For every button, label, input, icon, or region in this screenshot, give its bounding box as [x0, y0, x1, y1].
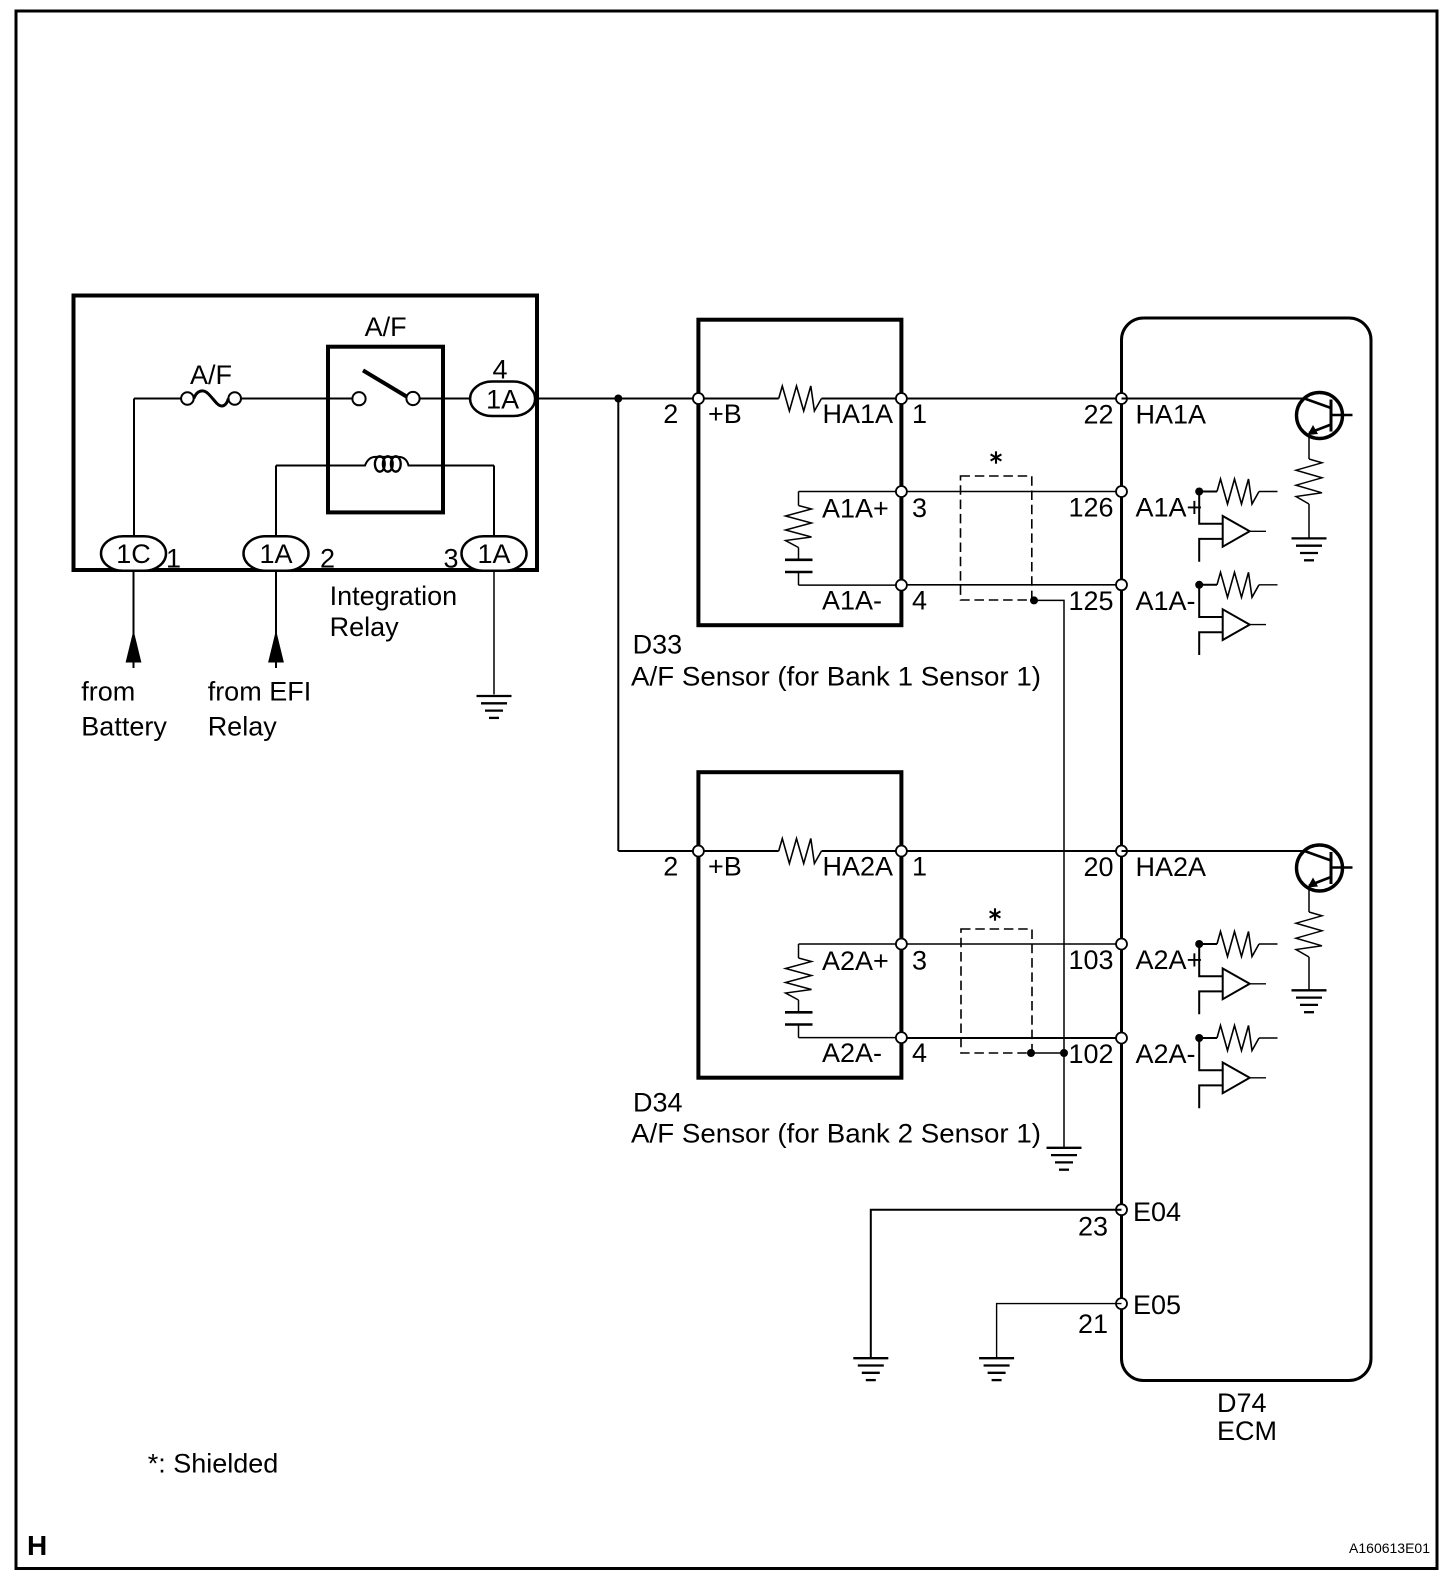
svg-text:102: 102: [1068, 1039, 1113, 1069]
fuse A/F: [181, 391, 241, 406]
op-amp buffer U-A2A-: [1223, 1063, 1250, 1094]
wire sensor cell bottom D34: [799, 1037, 897, 1039]
svg-text:HA1A: HA1A: [1136, 400, 1207, 430]
node A2A- junction dot: [1195, 1034, 1203, 1042]
wire ECM 20 to transistor Q2: [1122, 850, 1305, 852]
svg-text:HA2A: HA2A: [823, 852, 894, 882]
wire A1A- buffer output: [1250, 624, 1266, 626]
svg-text:A1A-: A1A-: [1136, 586, 1196, 616]
wire sensor cell top D34: [799, 943, 897, 945]
ground E05: [979, 1358, 1014, 1380]
sensor cell resistor D34: [786, 958, 812, 1000]
connector 1 1C: [101, 536, 166, 571]
heater resistor HA1A: [704, 398, 779, 400]
svg-text:*: Shielded: *: Shielded: [148, 1449, 279, 1479]
node shield drain junction dot: [1060, 1049, 1068, 1057]
wire A1A- buffer upper input: [1199, 585, 1223, 617]
wire A2A- buffer lower input: [1199, 1085, 1223, 1108]
svg-text:Relay: Relay: [208, 712, 278, 742]
node +B junction dot: [614, 395, 622, 403]
svg-text:A2A-: A2A-: [822, 1038, 882, 1068]
wire sensor cell top D33: [799, 491, 897, 493]
node A2A+ junction dot: [1195, 940, 1203, 948]
sensor cell capacitor D33: [785, 548, 813, 586]
svg-text:3: 3: [912, 493, 927, 523]
ground Q2 emitter: [1292, 990, 1327, 1012]
svg-text:D74: D74: [1217, 1388, 1267, 1418]
svg-text:20: 20: [1083, 852, 1113, 882]
svg-text:103: 103: [1068, 945, 1113, 975]
svg-text:1C: 1C: [116, 539, 151, 569]
wire contact to connector 4: [420, 398, 471, 400]
svg-text:H: H: [27, 1530, 47, 1561]
relay contact: [352, 370, 419, 405]
svg-text:A1A+: A1A+: [1136, 493, 1203, 523]
wire A1A- buffer lower input: [1199, 632, 1223, 655]
wire ECM 22 to transistor Q1: [1122, 398, 1305, 400]
svg-text:D33: D33: [633, 630, 683, 660]
svg-text:23: 23: [1078, 1212, 1108, 1242]
svg-text:A/F: A/F: [190, 360, 232, 390]
resistor R-A2A-: [1199, 1037, 1217, 1039]
resistor Q2 emitter: [1296, 912, 1322, 957]
wire A2A- buffer upper input: [1199, 1038, 1223, 1070]
relay A/F inner box: [328, 347, 443, 513]
wire shield D34 drain: [1031, 1052, 1064, 1054]
heater resistor HA2A: [704, 850, 779, 852]
svg-text:D34: D34: [633, 1087, 683, 1117]
wire A2A+ buffer output: [1250, 983, 1266, 985]
wire shield D33 drain: [1034, 600, 1064, 1147]
terminal 1 D33: [896, 393, 907, 404]
op-amp buffer U-A2A+: [1223, 969, 1250, 1000]
resistor R-A1A-: [1199, 584, 1217, 586]
svg-text:A160613E01: A160613E01: [1349, 1540, 1430, 1556]
terminal 4 D33: [896, 580, 907, 591]
svg-text:A2A+: A2A+: [1136, 945, 1203, 975]
terminal 4 D34: [896, 1032, 907, 1043]
svg-text:A2A+: A2A+: [822, 946, 889, 976]
terminal 1 D34: [896, 846, 907, 857]
connector 2 1A: [244, 536, 309, 571]
wire fuse to relay contact: [241, 398, 352, 400]
wire A2A- buffer output: [1250, 1077, 1266, 1079]
ECM terminal 23 E04: [1078, 1197, 1181, 1242]
wire A1A- D33 to ECM 125: [907, 584, 1122, 586]
svg-text:4: 4: [912, 1038, 927, 1068]
svg-text:4: 4: [492, 355, 507, 385]
ECM terminal 20 HA2A: [1083, 846, 1206, 883]
svg-text:1A: 1A: [477, 539, 510, 569]
svg-text:E04: E04: [1133, 1197, 1181, 1227]
wire E05 to ground: [997, 1304, 1122, 1359]
svg-text:2: 2: [320, 543, 335, 573]
svg-text:125: 125: [1068, 586, 1113, 616]
svg-text:1A: 1A: [486, 384, 519, 414]
wire resistor to ground Q1: [1308, 504, 1310, 538]
ECM terminal 125 A1A-: [1068, 579, 1195, 616]
wire A2A- D34 to ECM 102: [907, 1037, 1122, 1039]
wire E04 to ground: [871, 1210, 1122, 1359]
svg-text:A1A-: A1A-: [822, 586, 882, 616]
wire resistor to ground Q2: [1308, 957, 1310, 990]
wire from EFI relay with arrow: [268, 570, 284, 668]
svg-text:A1A+: A1A+: [822, 494, 889, 524]
svg-text:A2A-: A2A-: [1136, 1039, 1196, 1069]
wire A1A+ D33 to ECM 126: [907, 491, 1122, 493]
svg-text:ECM: ECM: [1217, 1416, 1277, 1446]
svg-text:21: 21: [1078, 1309, 1108, 1339]
node A1A+ junction dot: [1195, 488, 1203, 496]
svg-text:1A: 1A: [259, 539, 292, 569]
svg-text:+B: +B: [708, 852, 742, 882]
wire Q2 emitter to resistor: [1308, 889, 1310, 913]
resistor R-A2A+: [1199, 943, 1217, 945]
wire Q1 emitter to resistor: [1308, 436, 1310, 459]
svg-text:Integration: Integration: [330, 581, 458, 611]
ground shield drain: [1047, 1148, 1082, 1170]
connector 4 1A: [470, 382, 535, 417]
ground integration relay: [477, 696, 512, 718]
svg-text:Battery: Battery: [81, 712, 167, 742]
sensor cell capacitor D34: [785, 1000, 813, 1038]
terminal 3 D33: [896, 486, 907, 497]
svg-text:3: 3: [443, 543, 458, 573]
svg-text:from: from: [81, 676, 135, 706]
wire from battery with arrow: [126, 570, 142, 668]
svg-text:2: 2: [663, 399, 678, 429]
node shield D33 drain dot: [1030, 596, 1038, 604]
wire A2A+ D34 to ECM 103: [907, 943, 1122, 945]
ECM terminal 102 A2A-: [1068, 1033, 1195, 1070]
wire HA2A D34 to ECM 20: [907, 850, 1122, 852]
wire connector 3 to ground: [493, 570, 495, 694]
ECM terminal 22 HA1A: [1083, 393, 1206, 430]
svg-text:22: 22: [1083, 400, 1113, 430]
ECM terminal 126 A1A+: [1068, 486, 1202, 523]
op-amp buffer U-A1A+: [1223, 516, 1250, 547]
svg-text:A/F Sensor (for Bank 1 Sensor: A/F Sensor (for Bank 1 Sensor 1): [631, 661, 1041, 691]
svg-text:from EFI: from EFI: [208, 676, 312, 706]
svg-text:4: 4: [912, 586, 927, 616]
transistor Q2: [1297, 845, 1353, 891]
shield asterisk D33: [991, 451, 1002, 463]
node shield D34 drain dot: [1027, 1049, 1035, 1057]
resistor R-A1A+: [1199, 491, 1217, 493]
connector 3 1A: [462, 536, 527, 571]
relay coil: [276, 456, 494, 471]
svg-text:A/F: A/F: [365, 312, 407, 342]
wire coil left to connector 2: [275, 466, 277, 538]
wire A1A+ buffer output: [1250, 530, 1266, 532]
wire +B junction down to D34: [617, 399, 619, 852]
svg-text:E05: E05: [1133, 1290, 1181, 1320]
node A1A- junction dot: [1195, 581, 1203, 589]
A/F sensor box D33: [698, 320, 901, 626]
svg-text:1: 1: [912, 852, 927, 882]
svg-text:+B: +B: [708, 399, 742, 429]
shield asterisk D34: [990, 908, 1001, 920]
ECM terminal 103 A2A+: [1068, 939, 1202, 976]
wire battery feed vertical (1C to fuse): [133, 399, 135, 538]
wire HA1A D33 to ECM 22: [907, 398, 1122, 400]
svg-text:A/F Sensor (for Bank 2 Sensor: A/F Sensor (for Bank 2 Sensor 1): [631, 1118, 1041, 1148]
shield box D34: [961, 929, 1032, 1053]
wire connector 4 to D33 +B: [535, 398, 693, 400]
wire sensor cell bottom D33: [799, 584, 897, 586]
Integration Relay outer box: [74, 296, 538, 571]
terminal 3 D34: [896, 939, 907, 950]
ground Q1 emitter: [1292, 538, 1327, 560]
wire A2A+ buffer lower input: [1199, 991, 1223, 1014]
wire A1A+ buffer upper input: [1199, 492, 1223, 524]
sensor cell resistor D33: [786, 506, 812, 548]
wire A1A+ buffer lower input: [1199, 539, 1223, 562]
terminal 2 +B D33: [693, 393, 704, 404]
ECM box D74: [1122, 318, 1372, 1381]
svg-text:126: 126: [1068, 493, 1113, 523]
svg-text:1: 1: [166, 543, 181, 573]
op-amp buffer U-A1A-: [1223, 609, 1250, 640]
svg-text:2: 2: [663, 852, 678, 882]
shield box D33: [961, 476, 1032, 600]
svg-text:HA2A: HA2A: [1136, 852, 1207, 882]
svg-text:Relay: Relay: [330, 612, 400, 642]
ground E04: [853, 1358, 888, 1380]
svg-text:HA1A: HA1A: [823, 399, 894, 429]
wire A2A+ buffer upper input: [1199, 944, 1223, 976]
A/F sensor box D34: [698, 772, 901, 1077]
transistor Q1: [1297, 393, 1353, 439]
svg-text:1: 1: [912, 399, 927, 429]
wire coil right to connector 3: [493, 466, 495, 538]
terminal 2 +B D34: [693, 846, 704, 857]
svg-text:3: 3: [912, 946, 927, 976]
resistor Q1 emitter: [1296, 459, 1322, 504]
ECM terminal 21 E05: [1078, 1290, 1181, 1339]
